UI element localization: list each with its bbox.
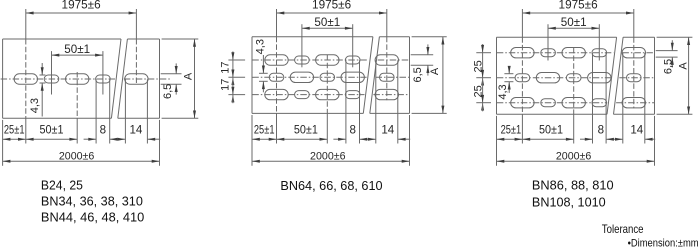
diagram3 dim 6,5 text — [663, 59, 675, 74]
diagram2 dim row-spacing text 1 — [219, 61, 231, 73]
diagram2 dim A ext bottom — [412, 112, 447, 114]
diagram2 dim 50 left extension — [301, 24, 303, 67]
diagram2 row 1 small slot 2 — [295, 56, 310, 64]
diagram3 row 3 large slot 3 — [562, 98, 585, 108]
svg-text:A: A — [429, 67, 441, 75]
diagram1 chain ext 8 right — [109, 79, 111, 143]
diagram2 dim A text — [429, 67, 441, 75]
diagram3 chain ext 14 left — [622, 53, 624, 144]
diagram1 dim 50b text — [40, 123, 64, 136]
svg-text:50±1: 50±1 — [539, 123, 563, 136]
diagram3 break line right — [614, 37, 624, 114]
diagram3 dim 50 text — [561, 16, 587, 29]
diagram2 chain ext 14 right — [397, 60, 399, 143]
diagram1 strip left edge — [2, 39, 4, 118]
diagram2 dim 50 line — [302, 27, 353, 30]
svg-text:6,5: 6,5 — [663, 59, 675, 74]
diagram3 row 3 large end slot — [622, 98, 645, 108]
diagram3 chain ext right edge — [654, 116, 656, 166]
svg-text:25±1: 25±1 — [254, 123, 275, 136]
svg-text:50±1: 50±1 — [294, 123, 318, 136]
diagram2 row-spacing ext tick — [228, 94, 245, 96]
diagram1 dim A ext bottom — [162, 117, 199, 119]
diagram3 row 2 large slot 2 — [536, 73, 559, 83]
diagram1 chain ext col3 — [76, 72, 78, 144]
diagram2 strip bottom edge (left of break) — [252, 112, 363, 114]
diagram1 row 1 small slot 2 — [44, 75, 59, 83]
diagram3 dim row-spacing text 1 — [473, 60, 485, 72]
diagram3 dim 2000 text — [556, 151, 592, 163]
diagram2 chain ext left edge — [251, 115, 253, 166]
diagram2 row 3 small slot 2 — [295, 91, 310, 99]
diagram1 dim A text — [182, 72, 194, 80]
diagram2 label BN64 — [280, 179, 382, 193]
svg-text:A: A — [677, 62, 689, 70]
diagram2 row 2 small slot 3 — [320, 73, 335, 81]
diagram2 row 1 large end slot — [375, 55, 398, 65]
diagram2 chain ext 14 left — [375, 60, 377, 143]
diagram2 dim 2000 text — [310, 151, 346, 163]
note Tolerance — [602, 222, 644, 236]
diagram1 break line left — [111, 39, 121, 118]
diagram1 dim 1975 right extension — [135, 9, 137, 85]
diagram2 dim 6,5 arrows — [426, 44, 429, 75]
diagram2 chain ext right edge — [409, 115, 411, 166]
diagram3 row 1 centerline (left of break) — [497, 52, 614, 54]
diagram3 dim A ext bottom — [657, 113, 693, 115]
diagram3 row 2 small slot 1 — [515, 74, 530, 82]
diagram3 strip bottom edge (right of break) — [614, 113, 655, 115]
svg-text:50±1: 50±1 — [64, 43, 90, 56]
diagram3 dim 4,3 arrows — [504, 66, 513, 93]
diagram2 dim 14 text — [381, 123, 394, 136]
diagram1 chain ext right edge — [159, 120, 161, 166]
diagram1 strip top edge (right of break) — [127, 38, 159, 40]
diagram1 chain ext left edge — [2, 120, 4, 166]
diagram3 row 1 centerline (right of break) — [622, 52, 654, 54]
diagram1 dim 6,5 text — [162, 84, 174, 99]
diagram3 row 1 large slot 1 — [511, 48, 534, 58]
diagram3 dim A line — [687, 37, 690, 114]
svg-text:25: 25 — [473, 85, 485, 97]
diagram3 row 1 large slot 3 — [562, 48, 585, 58]
svg-text:6,5: 6,5 — [162, 84, 174, 99]
diagram1 label B24 — [41, 178, 83, 192]
diagram3 dim 25 line — [497, 138, 523, 141]
diagram3 row 2 small end slot — [627, 74, 642, 82]
diagram2 dim 8 left arrow — [333, 138, 346, 141]
diagram2 row 2 large slot 4 — [341, 72, 364, 82]
diagram3 row-spacing ext tick — [476, 52, 491, 54]
diagram1 strip bottom edge (left of break) — [3, 117, 112, 119]
diagram3 dim 1975 left extension — [521, 9, 523, 144]
diagram3 dim 6,5 arrows — [671, 40, 674, 67]
diagram1 strip right edge — [159, 39, 161, 118]
svg-text:8: 8 — [598, 123, 604, 136]
diagram2 break line right — [370, 37, 380, 114]
svg-text:2000±6: 2000±6 — [59, 151, 95, 163]
diagram1 row 1 large slot 3 — [66, 74, 89, 84]
diagram2 dim 6,5 ext top — [411, 54, 434, 56]
svg-text:50±1: 50±1 — [561, 16, 587, 29]
diagram3 dim 50 right extension — [598, 24, 600, 60]
diagram1 row 1 small slot 4 — [96, 75, 111, 83]
svg-text:14: 14 — [630, 123, 643, 136]
diagram3 dim 8/14 middle arrows — [606, 138, 623, 141]
svg-text:14: 14 — [381, 123, 394, 136]
svg-text:50±1: 50±1 — [314, 16, 340, 29]
diagram3 strip top edge (left of break) — [497, 36, 617, 38]
svg-text:BN34, 36, 38, 310: BN34, 36, 38, 310 — [41, 195, 143, 209]
diagram1 dim 2000 text — [59, 151, 95, 163]
diagram3 dim 14 right arrow — [645, 138, 655, 141]
diagram3 row 2 centerline (right of break) — [619, 77, 654, 79]
diagram3 strip top edge (right of break) — [623, 36, 654, 38]
svg-text:25±1: 25±1 — [4, 123, 25, 136]
diagram2 dim 50 text — [314, 16, 340, 29]
diagram1 label BN34 — [41, 195, 143, 209]
svg-text:BN86, 88, 810: BN86, 88, 810 — [532, 178, 614, 192]
diagram2 chain ext 8 right — [359, 60, 361, 143]
diagram2 dim 14 right arrow — [398, 138, 410, 141]
diagram1 dim A ext top — [162, 38, 199, 40]
diagram1 dim 6,5 ext bottom — [161, 83, 182, 85]
diagram3 row 3 small slot 2 — [541, 99, 556, 107]
diagram2 dim 4,3 arrows — [259, 55, 268, 92]
diagram3 dim 2000 line — [497, 160, 655, 163]
diagram2 dim 4,3 text — [255, 39, 267, 54]
diagram3 dim 1975 right extension — [633, 9, 635, 108]
diagram1 break line right — [118, 39, 128, 118]
diagram2 row 1 small slot 4 — [345, 56, 360, 64]
diagram1 dim 25 text — [4, 123, 25, 136]
diagram1 chain ext 8 left — [95, 79, 97, 143]
diagram2 row 2 centerline (left of break) — [252, 76, 366, 78]
diagram3 dim 50b text — [539, 123, 563, 136]
diagram3 dim 6,5 ext top — [656, 50, 678, 52]
diagram2 break line left — [363, 37, 373, 114]
diagram1 strip bottom edge (right of break) — [118, 117, 160, 119]
diagram2 dim 50 right extension — [352, 24, 354, 67]
diagram2 dim 50b line — [277, 138, 328, 141]
diagram1 dim 25 line — [3, 138, 26, 141]
svg-text:6,5: 6,5 — [412, 67, 424, 82]
diagram2 row-spacing ext tick — [228, 59, 245, 61]
diagram2 strip top edge (left of break) — [252, 36, 373, 38]
svg-text:A: A — [182, 72, 194, 80]
diagram3 row 3 small slot 4 — [592, 99, 607, 107]
diagram2 strip bottom edge (right of break) — [370, 112, 410, 114]
diagram2 strip right edge — [409, 37, 411, 114]
svg-text:2000±6: 2000±6 — [310, 151, 346, 163]
diagram3 dim 4,3 text — [497, 84, 509, 99]
diagram3 chain ext 8 left — [592, 53, 594, 144]
diagram3 row 2 small slot 3 — [566, 74, 581, 82]
svg-text:8: 8 — [100, 123, 106, 136]
diagram1 dim 6,5 arrows — [175, 63, 178, 94]
diagram2 row 1 large slot 1 — [265, 55, 288, 65]
diagram2 dim 25 text — [254, 123, 275, 136]
diagram3 row 3 centerline (right of break) — [616, 102, 654, 104]
diagram3 strip right edge — [654, 37, 656, 114]
diagram2 dim 8 text — [349, 123, 355, 136]
svg-text:BN44, 46, 48, 410: BN44, 46, 48, 410 — [41, 211, 144, 225]
svg-text:1975±6: 1975±6 — [62, 0, 101, 12]
diagram3 dim row-spacing text 2 — [473, 85, 485, 97]
note dimension tolerance — [628, 238, 699, 248]
diagram1 dim 1975 left extension — [25, 9, 27, 144]
diagram3 dim 50 line — [548, 27, 599, 30]
diagram2 row 3 centerline (left of break) — [252, 94, 364, 96]
diagram1 label BN44 — [41, 211, 144, 225]
diagram1 row 1 large end slot — [125, 74, 148, 84]
diagram2 row 3 small slot 4 — [345, 91, 360, 99]
diagram2 dim row-spacing line — [231, 51, 234, 103]
diagram2 row 2 large slot 2 — [290, 72, 313, 82]
diagram1 row 1 centerline (right of break) — [124, 78, 171, 80]
diagram1 dim 4,3 arrows — [40, 63, 46, 117]
svg-text:BN64, 66, 68, 610: BN64, 66, 68, 610 — [280, 179, 382, 193]
diagram2 row 3 large slot 3 — [316, 89, 339, 99]
diagram1 dim 50 line — [52, 54, 103, 57]
svg-text:Tolerance: Tolerance — [602, 222, 644, 236]
diagram3 row 3 large slot 1 — [511, 98, 534, 108]
diagram3 dim 50b line — [522, 138, 573, 141]
diagram2 row 1 centerline (left of break) — [252, 59, 368, 61]
svg-text:4,3: 4,3 — [497, 84, 509, 99]
svg-text:50±1: 50±1 — [40, 123, 64, 136]
svg-text:17: 17 — [219, 61, 231, 73]
diagram3 row 1 large end slot — [622, 48, 645, 58]
svg-text:25±1: 25±1 — [501, 123, 522, 136]
diagram2 row-spacing ext tick — [228, 76, 245, 78]
diagram2 dim 6,5 ext bottom — [411, 64, 434, 66]
diagram3 row 1 small slot 4 — [592, 49, 607, 57]
diagram3 dim A ext top — [657, 36, 693, 38]
diagram2 chain ext 8 left — [345, 60, 347, 143]
diagram1 dim 4,3 text — [29, 98, 41, 113]
diagram2 dim 2000 line — [252, 160, 410, 163]
diagram2 dim 1975 right extension — [386, 9, 388, 100]
diagram2 dim A line — [441, 37, 444, 114]
diagram3 dim 6,5 ext bottom — [656, 56, 678, 58]
diagram2 row 3 large slot 1 — [265, 89, 288, 99]
svg-text:14: 14 — [129, 123, 142, 136]
diagram2 row 1 large slot 3 — [316, 55, 339, 65]
diagram3 chain ext left edge — [496, 116, 498, 166]
diagram1 strip top edge (left of break) — [3, 38, 121, 40]
diagram1 chain ext 14 left — [124, 79, 126, 143]
diagram3 dim 1975 line — [522, 12, 633, 15]
svg-text:BN108, 1010: BN108, 1010 — [532, 196, 606, 210]
diagram2 dim 25 line — [252, 138, 277, 141]
diagram2 row 3 centerline (right of break) — [373, 94, 409, 96]
diagram1 dim 50 right extension — [102, 51, 104, 94]
diagram2 chain ext col3 — [326, 55, 328, 144]
diagram1 dim 8/14 middle arrows — [110, 138, 126, 141]
diagram3 dim 1975 text — [559, 0, 598, 12]
diagram1 dim 50 text — [64, 43, 90, 56]
svg-text:8: 8 — [349, 123, 355, 136]
diagram2 row 1 centerline (right of break) — [378, 59, 410, 61]
diagram3 break line left — [607, 37, 617, 114]
diagram2 row 2 small slot 1 — [269, 73, 284, 81]
diagram3 strip left edge — [496, 37, 498, 114]
diagram1 dim 2000 line — [3, 160, 160, 163]
diagram1 row 1 large slot 1 — [14, 74, 37, 84]
diagram2 dim 50b text — [294, 123, 318, 136]
diagram3 label BN108 — [532, 196, 606, 210]
svg-text:1975±6: 1975±6 — [312, 0, 351, 12]
diagram3 row 3 centerline (left of break) — [497, 102, 607, 104]
diagram1 dim 1975 line — [26, 12, 137, 15]
svg-text:1975±6: 1975±6 — [559, 0, 598, 12]
diagram3 strip bottom edge (left of break) — [497, 113, 608, 115]
diagram3 chain ext 8 right — [605, 53, 607, 144]
diagram1 dim 8 text — [100, 123, 106, 136]
diagram3 dim 8 left arrow — [580, 138, 593, 141]
diagram1 dim 1975 text — [62, 0, 101, 12]
svg-text:4,3: 4,3 — [255, 39, 267, 54]
diagram3 dim 25 text — [501, 123, 522, 136]
diagram3 row-spacing ext tick — [476, 77, 491, 79]
diagram1 dim 14 right arrow — [147, 138, 160, 141]
diagram3 dim row-spacing line — [481, 44, 484, 111]
diagram1 row 1 centerline (left of break) — [1, 78, 115, 80]
diagram1 dim A line — [193, 39, 196, 118]
diagram2 strip top edge (right of break) — [379, 36, 409, 38]
diagram1 dim 8 left arrow — [84, 138, 97, 141]
diagram3 dim 8 text — [598, 123, 604, 136]
diagram2 dim 1975 line — [277, 12, 387, 15]
diagram1 dim 50 left extension — [51, 51, 53, 94]
diagram3 chain ext 14 right — [644, 53, 646, 144]
diagram2 dim row-spacing text 2 — [219, 79, 231, 91]
diagram1 chain ext 14 right — [146, 79, 148, 143]
diagram2 row 2 small end slot — [380, 73, 395, 81]
diagram2 dim A ext top — [412, 36, 447, 38]
diagram2 strip left edge — [251, 37, 253, 114]
diagram3 row-spacing ext tick — [476, 102, 491, 104]
diagram3 label BN86 — [532, 178, 614, 192]
diagram2 row 2 centerline (right of break) — [376, 76, 410, 78]
diagram2 dim 6,5 text — [412, 67, 424, 82]
diagram1 dim 14 text — [129, 123, 142, 136]
svg-text:2000±6: 2000±6 — [556, 151, 592, 163]
svg-text:25: 25 — [473, 60, 485, 72]
diagram3 row 2 centerline (left of break) — [497, 77, 611, 79]
diagram3 chain ext col3 — [573, 48, 575, 144]
svg-text:17: 17 — [219, 79, 231, 91]
diagram3 dim 50 left extension — [547, 24, 549, 60]
diagram2 dim 8/14 middle arrows — [360, 138, 376, 141]
diagram2 dim 1975 text — [312, 0, 351, 12]
svg-text:B24, 25: B24, 25 — [41, 178, 83, 192]
diagram3 dim 14 text — [630, 123, 643, 136]
svg-text:4,3: 4,3 — [29, 98, 41, 113]
svg-text:•Dimension:±mm: •Dimension:±mm — [628, 238, 699, 248]
diagram3 row 1 small slot 2 — [541, 49, 556, 57]
diagram2 row 3 large end slot — [375, 89, 398, 99]
diagram2 dim 1975 left extension — [276, 9, 278, 144]
diagram3 row 2 large slot 4 — [588, 73, 611, 83]
diagram1 dim 50b line — [26, 138, 77, 141]
diagram1 dim 6,5 ext top — [161, 73, 182, 75]
diagram3 dim A text — [677, 62, 689, 70]
